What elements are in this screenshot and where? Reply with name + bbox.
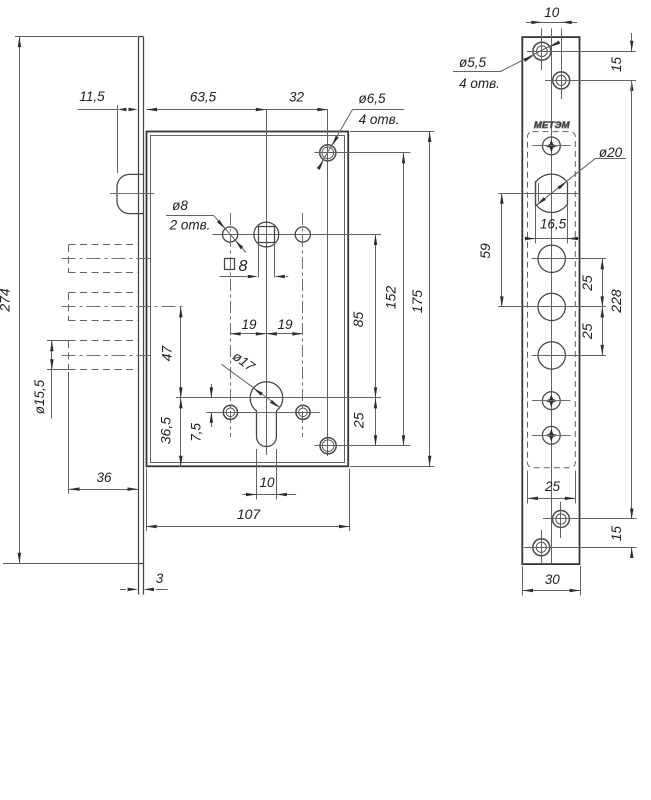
svg-text:274: 274	[0, 288, 13, 313]
deadbolt 2 center line	[62, 306, 183, 308]
bottom hole center line	[315, 445, 411, 447]
mounting hole B	[545, 28, 636, 99]
dimension 59	[477, 193, 504, 307]
lower holes center line	[206, 412, 319, 414]
svg-text:ø5,5: ø5,5	[459, 55, 487, 70]
dimension 10 extension lines	[257, 449, 277, 500]
label φ8 2 отв. with leader	[166, 198, 246, 253]
dimension 16,5 extension lines	[536, 204, 568, 243]
dimension 274	[0, 37, 21, 564]
spindle hub circle	[254, 222, 279, 247]
svg-text:25: 25	[351, 412, 367, 429]
strike plate outline	[522, 37, 579, 564]
svg-text:15: 15	[609, 526, 624, 542]
plate center line	[551, 28, 553, 563]
dimension 10 (slot width)	[242, 475, 296, 496]
dimension 274 extension bottom	[3, 563, 138, 565]
svg-text:47: 47	[158, 345, 174, 362]
dimension 30 extensions	[523, 566, 581, 596]
hole A center lines	[527, 51, 636, 53]
dimension 175 extensions	[350, 132, 435, 467]
dimension 16,5	[525, 217, 579, 241]
cylinder center line	[176, 397, 381, 399]
screw 2	[532, 392, 571, 410]
latch hole φ20 with two flats	[498, 174, 579, 212]
dimension 11,5	[78, 89, 138, 111]
hole φ8 left	[223, 227, 238, 242]
deadbolt 2 hidden outline	[69, 293, 139, 321]
deadbolt 1 center line	[62, 258, 155, 260]
dimension 25 upper	[579, 259, 604, 307]
svg-text:МЕТЭМ: МЕТЭМ	[534, 120, 571, 131]
deadbolt hole 2	[498, 293, 606, 320]
right hole column center line	[302, 213, 304, 437]
lock case hidden outline (dashed)	[528, 132, 576, 468]
dimension 7,5	[189, 384, 214, 442]
dimension 8 extension lines	[259, 243, 275, 278]
dimension φ15,5	[32, 341, 54, 419]
label φ5,5 4 отв. with leader	[453, 41, 560, 92]
hole B center lines	[545, 80, 636, 82]
spindle square hole 8x8	[259, 227, 275, 243]
dimension 175	[409, 132, 431, 467]
dimension 25 (cylinder to hole)	[351, 398, 378, 446]
left hole column center line	[230, 213, 232, 437]
dimension 25 bottom	[528, 479, 576, 500]
brand logo METEM	[534, 120, 571, 131]
svg-text:ø15,5: ø15,5	[32, 379, 47, 414]
label φ17 with leader	[222, 348, 280, 407]
hole φ6,5 bottom-right	[315, 438, 411, 454]
hole lower right	[296, 405, 310, 419]
hole φ6,5 top-right	[315, 145, 411, 161]
svg-text:85: 85	[350, 312, 366, 328]
svg-text:10: 10	[544, 5, 560, 20]
svg-text:36,5: 36,5	[157, 417, 173, 444]
svg-text:15: 15	[609, 57, 624, 73]
body vertical center line	[266, 110, 268, 455]
svg-text:ø6,5: ø6,5	[358, 91, 386, 106]
deadbolt 3 hidden outline	[69, 341, 139, 370]
svg-text:36: 36	[96, 470, 112, 485]
svg-text:25: 25	[579, 275, 595, 292]
hole column line right	[327, 110, 329, 456]
svg-text:3: 3	[156, 571, 164, 586]
svg-text:4 отв.: 4 отв.	[459, 76, 500, 91]
dimension □8	[219, 258, 288, 278]
dimension 107	[146, 506, 349, 528]
screw 1 (top)	[532, 137, 570, 155]
svg-text:2 отв.: 2 отв.	[169, 218, 211, 233]
hole φ8 right	[295, 227, 310, 242]
svg-text:8: 8	[239, 258, 248, 275]
svg-text:30: 30	[545, 572, 561, 587]
svg-text:152: 152	[383, 286, 399, 310]
svg-text:32: 32	[289, 90, 305, 105]
dimension 47	[158, 307, 182, 398]
svg-text:25: 25	[579, 323, 595, 340]
dimension 107 extension lines	[147, 469, 350, 532]
dimension 85	[350, 235, 377, 398]
dimension 274 extension top	[15, 36, 138, 38]
label φ20 with leader	[536, 145, 626, 205]
deadbolt hole 3	[532, 342, 606, 369]
upper holes center line	[213, 234, 381, 236]
dimension 36	[69, 470, 138, 491]
faceplate side view (3mm strip)	[138, 37, 144, 595]
svg-text:16,5: 16,5	[540, 217, 567, 232]
dimension 19 right	[266, 317, 303, 336]
mounting hole C	[543, 502, 637, 538]
deadbolt hole 1	[532, 245, 606, 272]
label φ6,5 4 отв. with leader	[317, 91, 405, 170]
svg-text:ø8: ø8	[172, 198, 188, 213]
svg-text:228: 228	[608, 289, 624, 314]
hole lower left	[223, 405, 237, 419]
dimension 25 lower	[579, 307, 604, 356]
latch center line	[110, 193, 155, 195]
lock body inner outline	[151, 136, 345, 463]
svg-text:7,5: 7,5	[189, 423, 204, 442]
svg-text:10: 10	[259, 475, 275, 490]
screw 3	[532, 426, 571, 444]
dimension 228	[608, 80, 632, 519]
deadbolt 1 hidden outline	[69, 245, 139, 273]
svg-text:4 отв.: 4 отв.	[359, 112, 400, 127]
svg-text:19: 19	[241, 317, 257, 332]
svg-text:175: 175	[409, 290, 425, 314]
latch hole center line	[498, 193, 579, 195]
svg-text:11,5: 11,5	[79, 89, 105, 104]
dimension 30	[523, 572, 581, 592]
dimension 15 top	[609, 33, 634, 91]
dimension 15 bottom	[609, 509, 634, 559]
svg-text:63,5: 63,5	[190, 90, 217, 105]
svg-text:ø17: ø17	[230, 348, 258, 374]
svg-text:19: 19	[277, 317, 293, 332]
dimension 11,5 extension line	[117, 105, 119, 173]
dimension 3 (faceplate thickness)	[120, 571, 168, 591]
mounting hole D	[524, 530, 637, 564]
dimension 32	[266, 90, 328, 112]
deadbolt 3 center line	[62, 355, 155, 357]
dimension 63,5	[147, 90, 267, 112]
svg-text:107: 107	[237, 506, 262, 522]
dimension 36,5	[157, 398, 182, 466]
dimension 36 extension line	[68, 372, 70, 494]
mounting hole A top	[527, 28, 636, 70]
lock body outer outline	[147, 132, 349, 467]
hole φ6,5 center line	[315, 152, 411, 154]
svg-text:ø20: ø20	[599, 145, 623, 160]
cylinder hole φ17 with slot	[176, 382, 381, 447]
dimension φ15,5 extension lines	[47, 341, 71, 370]
svg-text:25: 25	[544, 479, 561, 494]
dimension 25 bottom extensions	[528, 471, 576, 504]
latch bolt protruding	[110, 174, 155, 213]
dimension 19 left	[230, 317, 266, 336]
dimension 10 (hole offset)	[526, 5, 577, 24]
dimension 152	[383, 153, 406, 446]
svg-text:59: 59	[477, 243, 493, 259]
